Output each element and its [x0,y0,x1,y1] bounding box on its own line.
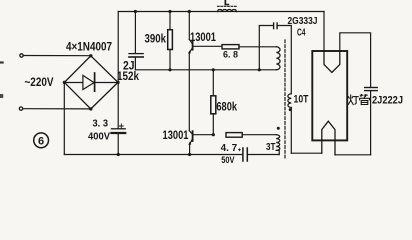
resistor R3 6.8 ohm [222,45,276,49]
label 13001 lower [163,129,189,142]
junction Q2 emitter on bottom rail [188,153,191,156]
label 2G333J [288,16,318,27]
label 680k [216,99,237,113]
junction node A / C4 leg [258,68,261,71]
junction 3.3uF cap on bottom rail [117,153,120,156]
svg-text:3. 3: 3. 3 [93,118,109,129]
junction R1 / node A [168,68,171,71]
label ~220V [25,75,54,89]
capacitor C4 2G333J [259,23,291,94]
label 2J [123,60,135,72]
label 13001 upper [190,31,216,44]
lamp bottom filament [322,121,335,155]
transformer winding N2 10T [288,94,292,153]
capacitor C1 2J152k [129,12,143,70]
label 3.3 [93,118,109,129]
wire node A horizontal (midpoint bias line) [135,69,276,71]
capacitor C3 4.7uF/50V [238,148,279,161]
label lamp 灯管 hand drawn [348,95,369,105]
svg-text:4×1N4007: 4×1N4007 [66,40,112,54]
resistor R2 680k [211,70,216,135]
svg-text:10T: 10T [294,93,309,105]
junction top rail / Q1 collector [188,10,191,13]
capacitor C2 3.3uF/400V electrolytic [112,124,126,155]
label 2J222J [372,94,403,106]
wire DC minus: bridge left vertex down to bottom rail [63,82,65,154]
svg-text:680k: 680k [216,99,237,113]
svg-text:6. 8: 6. 8 [223,49,238,59]
label 152k [117,71,140,83]
label L [224,0,229,7]
svg-text:390k: 390k [145,31,167,45]
label 3T [266,142,276,153]
label 400V [88,131,110,142]
svg-text:2J222J: 2J222J [372,94,403,106]
svg-text:L: L [224,0,229,7]
transformer winding N1 upper feedback [276,47,280,70]
label 10T [294,93,309,105]
inductor L1 filter choke on top rail [218,6,238,11]
junction top rail / R1 390k [168,10,171,13]
junction top rail / C1 [134,10,137,13]
bridge rectifier 4x1N4007 [63,54,120,111]
wire AC top to bridge [23,55,90,57]
label 390k [145,31,167,45]
svg-text:~220V: ~220V [25,75,54,89]
transformer core dashed [284,40,286,158]
svg-text:400V: 400V [88,131,110,142]
resistor R4 base drive [226,133,276,138]
label 4x1N4007 [66,40,112,54]
wire DC plus: top-rail corner down through right vertex to cap [117,12,119,129]
transformer winding N3 3T [276,127,280,155]
lamp tube rectangle [312,51,347,140]
diode inside bridge [64,73,118,91]
junction node A / 680k [212,68,215,71]
svg-text:152k: 152k [117,71,140,83]
terminal AC input bottom [19,107,22,110]
capacitor C5 2J222J [365,88,378,155]
resistor R1 390k [168,12,173,70]
scan smudge left edge [0,63,3,97]
svg-text:13001: 13001 [190,31,216,44]
svg-text:2G333J: 2G333J [288,16,318,27]
lamp top filament [324,51,340,72]
terminal AC input top [20,54,23,57]
transistor Q1 13001 upper [188,12,222,54]
wire 10T bottom to lamp bottom-left pin [291,152,322,154]
wire lamp top-right pin to C5 top [340,33,371,87]
junction Q2 base / 680k [212,133,215,136]
label 4.7 [221,143,238,154]
label C4 [297,27,306,38]
label figure number 6 circled [34,133,49,148]
wire AC bottom to bridge [23,108,91,110]
wire bottom rail left section [64,154,242,156]
svg-text:3T: 3T [266,142,276,153]
wire top rail [118,11,324,13]
label 50V [221,155,235,166]
svg-text:6: 6 [38,135,44,147]
wire midpoint vertical Q1 emitter to Q2 collector [188,53,190,131]
wire C5 bottom to lamp bottom-right pin [335,154,371,156]
wire top rail corner down to lamp top-left pin [323,12,325,52]
svg-text:13001: 13001 [163,129,189,142]
svg-text:4. 7: 4. 7 [221,143,238,154]
label 6.8 [223,49,238,59]
svg-text:C4: C4 [297,27,306,38]
svg-text:50V: 50V [221,155,235,166]
transistor Q2 13001 lower [188,131,213,155]
